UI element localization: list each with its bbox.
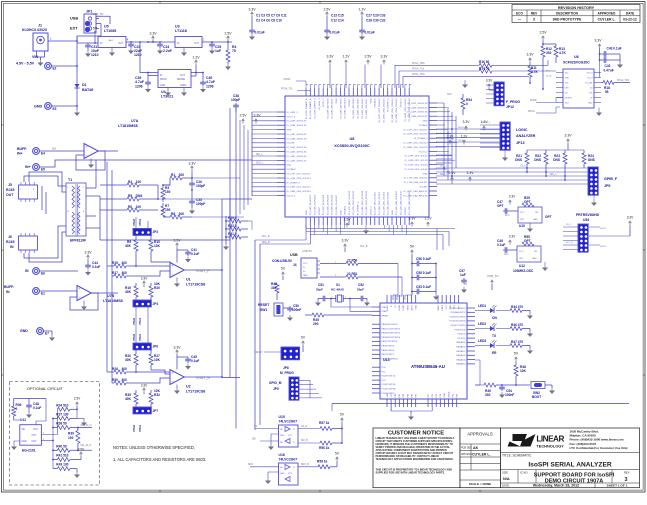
wires U4 input xyxy=(140,42,158,73)
svg-text:HC-49US: HC-49US xyxy=(331,288,344,292)
svg-text:EG-2101: EG-2101 xyxy=(22,449,36,453)
power 3.3V C43 xyxy=(598,44,601,46)
wire crystal to MCU xyxy=(330,298,332,300)
svg-text:PB5(PCINT5): PB5(PCINT5) xyxy=(382,346,395,348)
svg-text:WSOL_L: WSOL_L xyxy=(458,127,467,129)
svg-text:3.3V: 3.3V xyxy=(141,384,148,388)
svg-text:40K: 40K xyxy=(125,244,132,248)
svg-text:GND: GND xyxy=(533,219,538,221)
svg-text:IO_L04N_3/LHCLK3: IO_L04N_3/LHCLK3 xyxy=(287,138,308,140)
title block main box xyxy=(501,428,640,488)
ground C53 rail xyxy=(435,264,437,295)
svg-text:PB1(SCLK/PCINT1): PB1(SCLK/PCINT1) xyxy=(382,328,401,330)
svg-text:RESET: RESET xyxy=(255,352,263,354)
svg-text:RESET: RESET xyxy=(382,315,390,317)
svg-text:PE0(OC0B/INT0): PE0(OC0B/INT0) xyxy=(382,358,398,360)
wire 5V rail to MCU xyxy=(405,295,412,300)
wire U6 vcc rail xyxy=(599,60,601,78)
svg-text:BOOT: BOOT xyxy=(532,395,541,399)
svg-text:2.5V: 2.5V xyxy=(448,171,456,175)
svg-text:3.3V: 3.3V xyxy=(84,251,92,255)
svg-text:5V: 5V xyxy=(514,352,519,356)
wire rail to U5 xyxy=(77,42,98,44)
power 5V R58 xyxy=(336,457,339,459)
wires FPGA right fan xyxy=(437,102,444,104)
power 2.5V arrow xyxy=(227,36,230,38)
resistor R22 DNS xyxy=(545,150,547,153)
resistor R3 150 xyxy=(162,185,164,188)
svg-text:2.5V: 2.5V xyxy=(239,114,247,118)
svg-text:SCL_B: SCL_B xyxy=(566,242,573,244)
svg-text:U10: U10 xyxy=(519,224,525,228)
svg-text:DATE:: DATE: xyxy=(502,484,510,488)
svg-text:FPGA_TD0: FPGA_TD0 xyxy=(617,79,630,82)
svg-text:VCCINT: VCCINT xyxy=(319,206,321,215)
svg-text:SDA_B: SDA_B xyxy=(262,241,270,244)
svg-text:VIN: VIN xyxy=(32,55,38,59)
svg-text:JP4: JP4 xyxy=(153,302,159,306)
svg-text:RESET: RESET xyxy=(258,303,270,307)
resistor R27 10K xyxy=(150,350,152,354)
svg-text:1.2V: 1.2V xyxy=(461,135,468,139)
svg-text:C43 0.1uF: C43 0.1uF xyxy=(607,47,622,51)
svg-text:SW1: SW1 xyxy=(260,308,267,312)
svg-text:R20: R20 xyxy=(154,286,160,290)
op-amp U7B LT1819MS8 xyxy=(40,290,78,292)
wire U3 out xyxy=(202,41,232,43)
resistor R38 50 xyxy=(53,427,57,429)
resistor R51 22 xyxy=(320,276,346,278)
svg-text:OUT: OUT xyxy=(32,435,37,437)
svg-text:2.5V: 2.5V xyxy=(364,55,372,59)
svg-text:0.01uF: 0.01uF xyxy=(255,31,265,35)
svg-text:USB: USB xyxy=(70,17,78,21)
svg-text:IO_L08P_2/D5_GCLK14: IO_L08P_2/D5_GCLK14 xyxy=(287,187,312,189)
svg-text:SDI_L: SDI_L xyxy=(550,174,557,176)
svg-text:EPF8119F: EPF8119F xyxy=(70,239,86,243)
optional circuit dashed box xyxy=(10,382,100,486)
svg-text:3.3V: 3.3V xyxy=(526,53,534,57)
power 3.3V U54 xyxy=(629,221,632,223)
svg-text:DATE: DATE xyxy=(626,11,635,15)
svg-text:1.2V: 1.2V xyxy=(342,55,350,59)
svg-text:+: + xyxy=(172,264,174,268)
svg-text:22 R50: 22 R50 xyxy=(347,259,358,263)
svg-text:VCC: VCC xyxy=(520,212,525,214)
svg-text:1206: 1206 xyxy=(206,85,214,89)
FPGA top pins xyxy=(305,88,307,96)
svg-text:E5: E5 xyxy=(41,168,45,172)
svg-text:IP_2/VREF_2: IP_2/VREF_2 xyxy=(388,98,390,112)
svg-text:BUFF.: BUFF. xyxy=(17,147,27,151)
svg-text:100pF: 100pF xyxy=(196,184,205,188)
svg-text:TDI: TDI xyxy=(546,71,550,73)
svg-text:IN: IN xyxy=(100,43,103,45)
wire U4 out xyxy=(191,72,203,74)
resistor R42 33k xyxy=(275,283,279,293)
svg-text:E6: E6 xyxy=(41,272,45,276)
power 1.2V 3.3V mid right xyxy=(411,222,414,224)
svg-text:GPIB_F: GPIB_F xyxy=(604,177,618,181)
svg-text:PA0(AD0): PA0(AD0) xyxy=(456,341,466,344)
resistor R10 10K xyxy=(150,235,152,240)
svg-text:USB_5V: USB_5V xyxy=(92,12,104,16)
svg-text:IO_L09N_2/D2_GCLK3: IO_L09N_2/D2_GCLK3 xyxy=(405,160,429,162)
resistor R54 0 xyxy=(461,98,465,109)
svg-text:IO_L05N_3/LHCLK5: IO_L05N_3/LHCLK5 xyxy=(407,107,428,109)
resistor R41 510 xyxy=(53,459,57,461)
svg-text:VCCINT: VCCINT xyxy=(419,187,428,189)
svg-text:3: 3 xyxy=(533,18,535,22)
svg-text:R56 1k: R56 1k xyxy=(319,446,330,450)
svg-text:100nF: 100nF xyxy=(505,393,514,397)
svg-text:100: 100 xyxy=(68,436,74,440)
capacitor bank C13 xyxy=(326,28,328,30)
svg-text:PB3(MISO/PCINT3): PB3(MISO/PCINT3) xyxy=(382,337,401,339)
svg-text:U3: U3 xyxy=(175,25,180,29)
wire E6 xyxy=(40,270,79,272)
svg-text:IO_L08P_2/D5_GCLK14: IO_L08P_2/D5_GCLK14 xyxy=(392,98,394,123)
svg-text:PD7(T0): PD7(T0) xyxy=(458,338,466,340)
svg-text:5V: 5V xyxy=(410,245,415,249)
svg-text:C28 C30 C32: C28 C30 C32 xyxy=(366,19,386,23)
svg-text:U15: U15 xyxy=(279,415,285,419)
svg-text:5V: 5V xyxy=(93,27,98,31)
svg-text:SDO_B: SDO_B xyxy=(301,464,309,466)
wire E3 xyxy=(52,105,78,107)
svg-text:100MHZ-OSC: 100MHZ-OSC xyxy=(513,269,534,273)
svg-text:LED2: LED2 xyxy=(478,322,486,326)
svg-text:LT1719CS8: LT1719CS8 xyxy=(186,390,205,394)
svg-text:IN: IN xyxy=(25,269,29,273)
svg-text:10K: 10K xyxy=(154,358,161,362)
power 3.3V arrow middle xyxy=(191,166,194,168)
svg-text:IO_L04N_3/LHCLK3: IO_L04N_3/LHCLK3 xyxy=(315,194,317,215)
svg-text:SDO_L: SDO_L xyxy=(256,163,264,165)
resistor R44 470 xyxy=(496,310,510,312)
svg-text:IN: IN xyxy=(6,290,10,294)
svg-text:VCCAUX: VCCAUX xyxy=(418,124,428,127)
svg-text:30.1: 30.1 xyxy=(504,254,509,256)
svg-text:VCC: VCC xyxy=(288,435,293,437)
svg-text:PCB DES.: PCB DES. xyxy=(461,447,473,450)
svg-text:SDI: SDI xyxy=(252,439,256,441)
svg-text:C52: C52 xyxy=(358,283,364,287)
wire JP8 xyxy=(264,351,281,353)
wires FPGA bottom bus xyxy=(306,228,455,230)
wire R1 row to bus xyxy=(192,177,240,179)
svg-text:R37 130: R37 130 xyxy=(56,412,68,416)
svg-text:0: 0 xyxy=(16,407,18,411)
svg-text:XCF02SVOG20C: XCF02SVOG20C xyxy=(563,61,590,65)
resistor R9 40K xyxy=(135,235,137,240)
svg-text:150: 150 xyxy=(165,208,171,212)
ground U3 xyxy=(183,50,185,53)
svg-text:IO_L04P_3/LHCLK2: IO_L04P_3/LHCLK2 xyxy=(287,134,308,136)
capacitor C48 0.1uF xyxy=(14,398,46,400)
svg-text:R40 50: R40 50 xyxy=(56,444,67,448)
svg-text:0.1uF: 0.1uF xyxy=(497,243,505,247)
svg-text:LT3021: LT3021 xyxy=(161,95,173,99)
wires U11 outputs xyxy=(41,434,57,436)
power 5V arrow xyxy=(94,31,97,33)
jumper JP6 xyxy=(133,343,151,350)
svg-text:T1: T1 xyxy=(68,178,72,182)
svg-text:GND: GND xyxy=(387,393,389,398)
wire J1 to trunk xyxy=(48,40,77,42)
wire U15 output CS_B xyxy=(298,428,320,430)
resistor R39 100 xyxy=(77,428,79,431)
svg-text:VCC: VCC xyxy=(519,251,524,253)
svg-text:IO_L06P_3/LHCLK6: IO_L06P_3/LHCLK6 xyxy=(408,112,429,114)
svg-text:IP_2/VREF_2: IP_2/VREF_2 xyxy=(414,138,428,140)
svg-text:VTH2: VTH2 xyxy=(132,424,136,432)
svg-text:C51: C51 xyxy=(318,283,324,287)
svg-text:4.7uF: 4.7uF xyxy=(135,80,144,84)
svg-text:VTH1: VTH1 xyxy=(138,333,142,341)
svg-text:R2__100: R2__100 xyxy=(128,180,141,184)
svg-text:3.3V: 3.3V xyxy=(253,114,261,118)
svg-text:IO_L05N_3/LHCLK5: IO_L05N_3/LHCLK5 xyxy=(327,194,329,215)
svg-text:R29 0: R29 0 xyxy=(228,216,237,220)
svg-text:3.3V: 3.3V xyxy=(564,134,572,138)
capacitor C35 100pF xyxy=(191,190,193,199)
capacitor bank C1 xyxy=(251,28,253,30)
resistor R35 40K xyxy=(135,390,137,393)
svg-text:IN: IN xyxy=(160,75,163,77)
wire rail to R28 xyxy=(106,266,108,372)
power 2.5V 3.3V below cap bank 3 xyxy=(367,60,370,62)
svg-text:C53 0.1uF: C53 0.1uF xyxy=(416,285,431,289)
svg-text:JP8: JP8 xyxy=(283,366,289,370)
svg-text:GND: GND xyxy=(20,329,28,333)
svg-text:U12: U12 xyxy=(519,264,525,268)
ground U7A xyxy=(90,159,92,163)
svg-text:DNI: DNI xyxy=(52,149,56,151)
svg-text:R46 470: R46 470 xyxy=(511,323,523,327)
ground U12 xyxy=(544,262,546,265)
svg-text:R15__400: R15__400 xyxy=(112,261,127,265)
svg-text:PD5(XCK1): PD5(XCK1) xyxy=(455,329,466,331)
power 3.3V R2x xyxy=(567,139,570,141)
svg-text:GND: GND xyxy=(392,210,394,215)
svg-text:E4: E4 xyxy=(41,152,45,156)
svg-text:2.5V: 2.5V xyxy=(539,31,547,35)
svg-text:GND: GND xyxy=(450,304,452,309)
svg-text:USB_5V: USB_5V xyxy=(487,274,499,278)
svg-text:3.3V: 3.3V xyxy=(447,135,454,139)
ground U2 xyxy=(176,385,178,389)
resistor R50 22 xyxy=(320,263,346,265)
svg-text:CS_L: CS_L xyxy=(520,166,527,168)
power 2.5V arrow cap bank xyxy=(326,12,329,14)
power 3.3V U1 xyxy=(176,243,179,245)
svg-text:IO_L01N_3/SAMP_A: IO_L01N_3/SAMP_A xyxy=(309,98,312,119)
svg-text:3.3V: 3.3V xyxy=(173,346,181,350)
svg-text:SDA_L: SDA_L xyxy=(440,173,448,176)
capacitor C54 100nF xyxy=(501,385,503,387)
svg-text:WSOL: WSOL xyxy=(600,246,607,248)
svg-text:IO_L02N_3: IO_L02N_3 xyxy=(319,98,321,110)
svg-text:DONE: DONE xyxy=(530,100,537,102)
svg-text:R16 56: R16 56 xyxy=(479,60,490,64)
ground J1 xyxy=(40,57,42,60)
svg-text:X1: X1 xyxy=(336,283,340,287)
wires U54 xyxy=(563,226,578,228)
svg-text:SCL_B: SCL_B xyxy=(360,246,368,248)
svg-text:R58 1k: R58 1k xyxy=(317,460,328,464)
resistor R26 40K xyxy=(135,350,137,354)
svg-text:TECHNOLOGY APPLICATIONS ENGINE: TECHNOLOGY APPLICATIONS ENGINEERING FOR … xyxy=(376,458,454,461)
svg-text:EXT: EXT xyxy=(70,27,78,31)
svg-text:IO_L05P_3/LHCLK4: IO_L05P_3/LHCLK4 xyxy=(323,194,325,215)
svg-text:3.3V: 3.3V xyxy=(486,79,493,83)
resistor R34 510 xyxy=(57,407,70,411)
svg-text:CUYLER L.: CUYLER L. xyxy=(472,453,491,457)
svg-text:40K: 40K xyxy=(125,397,132,401)
resistor R20 10K xyxy=(150,283,152,286)
wires FPGA right bus to headers xyxy=(436,128,500,130)
resistor R45 200 xyxy=(305,314,312,316)
svg-text:0.1uF: 0.1uF xyxy=(33,406,41,410)
svg-text:SCK: SCK xyxy=(447,94,452,96)
svg-text:3.3V: 3.3V xyxy=(627,216,634,220)
diode D1 BAT46 xyxy=(75,84,80,88)
svg-text:GND: GND xyxy=(306,210,308,215)
title block approvals box xyxy=(460,428,501,488)
trunk wire xyxy=(76,36,78,84)
op-amp U2 LT1719CS8 xyxy=(170,370,184,385)
resistor R47 470 xyxy=(496,345,510,347)
svg-text:3.3V: 3.3V xyxy=(173,239,181,243)
svg-text:IO_L10N_2/D0_GCLK5: IO_L10N_2/D0_GCLK5 xyxy=(388,191,390,215)
svg-text:—: — xyxy=(518,18,522,22)
svg-text:R33 0: R33 0 xyxy=(228,224,237,228)
ground U4 pins xyxy=(167,88,169,91)
svg-text:SCL_B: SCL_B xyxy=(262,236,270,238)
resistor R30 400 xyxy=(112,382,114,384)
wire long bottom center xyxy=(332,403,629,405)
svg-text:VCCAUX: VCCAUX xyxy=(287,168,297,171)
svg-text:OE/RST: OE/RST xyxy=(565,98,573,100)
capacitor C39 4.7uF 1206 xyxy=(147,76,149,81)
svg-text:3.3V: 3.3V xyxy=(594,39,602,43)
svg-text:74LVC2G07: 74LVC2G07 xyxy=(279,420,298,424)
svg-text:F_PROG: F_PROG xyxy=(506,100,520,104)
svg-text:TCK: TCK xyxy=(565,83,570,85)
svg-text:BAT46: BAT46 xyxy=(82,88,93,92)
resistor R46 470 xyxy=(496,328,510,330)
svg-text:PRTRSV8UHD: PRTRSV8UHD xyxy=(576,213,600,217)
svg-text:3RD PROTOTYPE: 3RD PROTOTYPE xyxy=(553,18,582,22)
ground U6 xyxy=(598,108,600,111)
svg-text:−: − xyxy=(172,380,174,384)
wires T1 secondary xyxy=(86,187,96,189)
capacitor C44 0.1uF xyxy=(87,255,90,257)
svg-text:LED3: LED3 xyxy=(478,339,486,343)
svg-text:GND: GND xyxy=(423,121,428,123)
title block customer notice box xyxy=(373,428,460,488)
svg-text:U4: U4 xyxy=(161,90,166,94)
power 3.3V U2 xyxy=(176,350,179,352)
resistor R56 1k xyxy=(320,441,332,445)
svg-text:RJ45: RJ45 xyxy=(6,240,14,244)
power 3.3V arrow cap bank xyxy=(251,12,254,14)
svg-text:CS: CS xyxy=(254,426,258,428)
svg-text:C2 C4 C6 C8 C10: C2 C4 C6 C8 C10 xyxy=(256,19,282,23)
svg-text:CON-USB-5V: CON-USB-5V xyxy=(272,259,293,263)
resistor R2 100 xyxy=(100,184,127,186)
svg-text:OUT: OUT xyxy=(194,43,199,45)
svg-text:IO_L03P_3/LHCLK0: IO_L03P_3/LHCLK0 xyxy=(287,121,308,123)
svg-text:D1: D1 xyxy=(82,83,87,87)
svg-text:R34 510: R34 510 xyxy=(56,403,68,407)
svg-text:U11: U11 xyxy=(20,418,26,422)
ground U10 xyxy=(529,223,531,226)
svg-text:IO_L05P_3/LHCLK4: IO_L05P_3/LHCLK4 xyxy=(353,98,355,119)
wires JP13 xyxy=(480,124,500,126)
svg-text:DNS: DNS xyxy=(553,158,561,162)
svg-text:GND: GND xyxy=(287,165,292,167)
svg-text:J4: J4 xyxy=(293,263,297,267)
svg-text:IN+: IN+ xyxy=(17,152,23,156)
header JP13 LOGIC ANALYZER xyxy=(500,122,510,150)
svg-text:Wednesday, March 28, 2012: Wednesday, March 28, 2012 xyxy=(533,484,579,488)
svg-text:GPIO_M: GPIO_M xyxy=(269,381,282,385)
svg-text:40K: 40K xyxy=(125,358,132,362)
svg-text:3.3V: 3.3V xyxy=(341,239,349,243)
svg-text:C1 C3 C5 C7 C9 C11: C1 C3 C5 C7 C9 C11 xyxy=(256,14,287,18)
svg-text:IO_L03P_3/LHCLK0: IO_L03P_3/LHCLK0 xyxy=(327,98,329,119)
resistor R43 130 xyxy=(53,468,57,470)
svg-text:VCCAUX: VCCAUX xyxy=(344,205,347,215)
svg-text:GND: GND xyxy=(303,275,308,277)
svg-text:IO_L08P_2/D5_GCLK14: IO_L08P_2/D5_GCLK14 xyxy=(403,143,428,145)
svg-text:VSOL_L: VSOL_L xyxy=(458,140,467,142)
resistor R28 400 xyxy=(107,371,114,373)
resistor R4 75 xyxy=(227,42,229,50)
svg-text:IO_L07N_2/D6_GCLK13: IO_L07N_2/D6_GCLK13 xyxy=(403,134,428,136)
svg-text:4.7uF: 4.7uF xyxy=(206,80,215,84)
revision history table xyxy=(512,5,640,23)
power arrows left of FPGA xyxy=(242,119,245,121)
svg-text:R43 130: R43 130 xyxy=(56,463,68,467)
wire E2 to trunk xyxy=(52,65,78,67)
resistor R6 100 xyxy=(100,209,127,211)
svg-text:IO_L07N_2/D6_GCLK13: IO_L07N_2/D6_GCLK13 xyxy=(353,190,355,215)
header JP9 GPIO_M xyxy=(289,377,299,400)
ground JP5 xyxy=(593,195,595,201)
svg-text:R44 470: R44 470 xyxy=(511,305,523,309)
capacitor C45 0.1uF xyxy=(177,356,188,358)
svg-text:3: 3 xyxy=(625,477,628,483)
svg-text:JP6: JP6 xyxy=(153,345,159,349)
svg-text:J5: J5 xyxy=(8,183,12,187)
svg-text:IO_L07P_2/D7_GCLK12: IO_L07P_2/D7_GCLK12 xyxy=(403,129,428,131)
svg-text:IO_L07P_2/D7_GCLK12: IO_L07P_2/D7_GCLK12 xyxy=(287,174,312,176)
svg-text:E3: E3 xyxy=(53,107,57,111)
svg-text:GND: GND xyxy=(160,85,165,87)
svg-text:1uF: 1uF xyxy=(215,49,221,53)
wires R29 row to FPGA xyxy=(248,221,252,230)
svg-text:IO_L06N_3/LHCLK7: IO_L06N_3/LHCLK7 xyxy=(287,160,308,162)
op-amp U7A LT1819MS8 xyxy=(84,144,98,159)
svg-text:JP2: JP2 xyxy=(153,230,159,234)
resistor R17 400 xyxy=(112,275,114,277)
svg-text:+: + xyxy=(172,371,174,375)
svg-text:GND: GND xyxy=(287,130,292,132)
svg-text:C13 C15: C13 C15 xyxy=(331,14,344,18)
